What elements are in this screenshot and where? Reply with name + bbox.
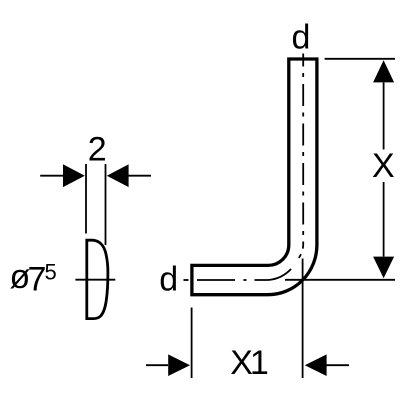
svg-text:5: 5 [45,260,57,285]
svg-text:X: X [372,147,395,185]
svg-text:d: d [291,19,310,57]
svg-text:d: d [159,261,178,299]
svg-text:2: 2 [88,131,107,169]
svg-text:X1: X1 [230,344,268,382]
